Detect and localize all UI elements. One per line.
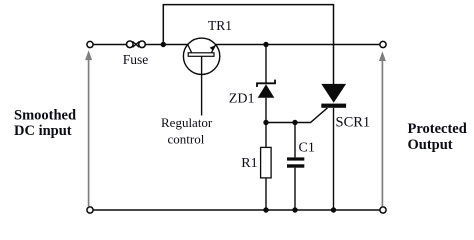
node: C1 bottom junction bbox=[292, 207, 297, 212]
wire: output rail down to ZD1 cathode bbox=[265, 45, 267, 84]
node: R1 bottom junction bbox=[263, 207, 268, 212]
wire: top rail to SCR1 anode bbox=[163, 5, 333, 85]
svg-text:Smoothed: Smoothed bbox=[14, 108, 76, 124]
svg-text:Output: Output bbox=[408, 137, 453, 153]
node: SCR1 cathode bottom junction bbox=[331, 207, 336, 212]
label ZD1 bbox=[229, 92, 255, 107]
svg-text:C1: C1 bbox=[299, 140, 315, 155]
transistor TR1 bbox=[183, 38, 219, 74]
node: ZD1 top junction bbox=[263, 42, 268, 47]
svg-text:DC input: DC input bbox=[14, 123, 72, 139]
svg-text:TR1: TR1 bbox=[208, 18, 232, 33]
zener diode ZD1 bbox=[257, 80, 275, 98]
resistor R1 bbox=[261, 147, 272, 178]
label TR1 bbox=[208, 18, 232, 33]
label Regulator control bbox=[161, 115, 213, 146]
node: C1 top junction bbox=[292, 120, 297, 125]
wire: C1 to bottom rail bbox=[294, 168, 296, 210]
svg-text:Protected: Protected bbox=[408, 121, 467, 137]
output terminal top-right bbox=[380, 41, 386, 47]
wire: TR1 base to regulator control bbox=[201, 75, 203, 116]
label C1 bbox=[299, 140, 315, 155]
fuse F1 bbox=[127, 41, 146, 48]
wire: junction to R1 bbox=[265, 123, 267, 148]
wire: gate line to SCR1 gate bbox=[266, 108, 328, 123]
svg-text:SCR1: SCR1 bbox=[336, 115, 371, 131]
wire: fuse to TR1 collector bbox=[145, 44, 188, 46]
gray output arrow bbox=[379, 51, 386, 206]
thyristor SCR1 bbox=[321, 84, 346, 108]
capacitor C1 bbox=[287, 157, 304, 167]
svg-text:Fuse: Fuse bbox=[123, 52, 149, 67]
label R1 bbox=[241, 156, 257, 171]
wire: junction to C1 bbox=[294, 123, 296, 158]
wire: bottom rail bbox=[93, 209, 380, 211]
input terminal top-left bbox=[87, 41, 93, 47]
svg-text:control: control bbox=[168, 131, 205, 146]
node: fuse / top rail junction bbox=[161, 42, 166, 47]
wire: SCR1 cathode to bottom rail bbox=[333, 108, 335, 210]
wire: R1 to bottom rail bbox=[265, 178, 267, 210]
label Smoothed DC input bbox=[14, 108, 76, 140]
label Fuse bbox=[123, 52, 149, 67]
wire: input terminal to fuse bbox=[93, 44, 127, 46]
wire: TR1 emitter to output terminal bbox=[216, 44, 380, 46]
input terminal bottom-left bbox=[87, 207, 93, 213]
output terminal bottom-right bbox=[380, 207, 386, 213]
svg-text:Regulator: Regulator bbox=[161, 115, 213, 130]
gray input arrow bbox=[85, 50, 92, 206]
label SCR1 bbox=[336, 115, 371, 131]
svg-text:ZD1: ZD1 bbox=[229, 92, 255, 107]
wire: ZD1 anode to gate line bbox=[265, 98, 267, 123]
svg-text:R1: R1 bbox=[241, 156, 257, 171]
node: R1 top junction bbox=[263, 120, 268, 125]
label Protected Output bbox=[408, 121, 467, 153]
